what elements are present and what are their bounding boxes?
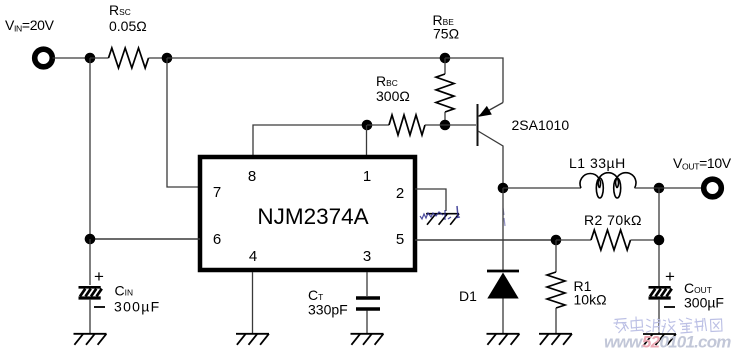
pin 3 — [363, 248, 371, 265]
pin 7 — [213, 184, 221, 201]
wire collector node to D1 — [502, 188, 504, 270]
svg-text:NJM2374A: NJM2374A — [257, 204, 368, 229]
capacitor COUT — [649, 267, 676, 307]
wire top rail to RBE node — [167, 57, 445, 59]
wire R2 to output node — [631, 239, 660, 241]
wire node to RSC — [90, 57, 109, 59]
label RBC 300ohm — [376, 73, 410, 104]
label L1 33uH — [569, 155, 626, 171]
svg-text:CIN: CIN — [115, 283, 134, 299]
wire RBC to base node — [425, 124, 445, 126]
wire pin4 to ground — [252, 272, 254, 334]
node output — [654, 183, 665, 194]
wire CIN to ground — [89, 299, 91, 334]
resistor RSC — [109, 48, 149, 68]
ground pin2 — [426, 214, 459, 225]
svg-text:VIN=20V: VIN=20V — [5, 17, 55, 34]
resistor RBE — [436, 74, 454, 112]
transistor Q1 collector — [478, 131, 503, 188]
wire pin6 node to IC — [90, 238, 200, 240]
svg-text:RBC: RBC — [376, 73, 398, 89]
label VOUT=10V — [673, 155, 732, 172]
node after RSC — [162, 53, 173, 64]
svg-text:+: + — [665, 267, 675, 286]
wire node to RBC — [367, 124, 389, 126]
label 2SA1010 — [512, 117, 570, 133]
resistor R2 — [591, 230, 630, 250]
svg-text:www.: www. — [604, 333, 645, 350]
IC U1 box — [200, 157, 415, 270]
label CIN 300uF — [114, 283, 160, 315]
svg-text:2: 2 — [396, 185, 404, 202]
label R1 10kohm — [574, 278, 607, 308]
label RBE 75ohm — [433, 12, 460, 42]
pin 8 — [248, 168, 256, 185]
node input junction — [85, 53, 96, 64]
wire VIN vertical to pin6 node — [89, 58, 91, 239]
pin 1 — [363, 168, 371, 185]
wire input to node — [53, 57, 91, 59]
wire top rail to emitter corner — [445, 58, 503, 103]
wire pin3 to CT — [366, 272, 368, 296]
ground D1 — [487, 334, 520, 345]
resistor RBC — [389, 115, 425, 135]
label R2 70kohm — [584, 212, 642, 228]
svg-text:0.05Ω: 0.05Ω — [109, 18, 147, 34]
label D1 — [459, 288, 477, 304]
wire R1 top lead — [555, 240, 557, 272]
svg-text:L1 33µH: L1 33µH — [569, 155, 626, 171]
transistor Q1 body bar — [477, 104, 479, 146]
node R2 output — [654, 235, 665, 246]
svg-text:RSC: RSC — [109, 2, 131, 18]
watermark url — [604, 333, 731, 350]
capacitor CIN — [79, 267, 106, 307]
wire to output terminal — [635, 187, 705, 189]
wire COUT to ground — [658, 299, 660, 334]
label RSC 0.05ohm — [109, 2, 147, 34]
node base — [440, 120, 451, 131]
svg-text:10kΩ: 10kΩ — [574, 292, 607, 308]
svg-text:6: 6 — [213, 231, 221, 248]
svg-text:3: 3 — [363, 248, 371, 265]
label VIN=20V — [5, 17, 55, 34]
svg-text:R2 70kΩ: R2 70kΩ — [584, 212, 642, 228]
svg-text:4: 4 — [249, 248, 257, 265]
svg-text:330pF: 330pF — [308, 302, 348, 318]
pin 6 — [213, 231, 221, 248]
wire D1 to ground — [502, 299, 504, 334]
pin 2 — [396, 185, 404, 202]
ground pin4 — [236, 334, 269, 345]
label NJM2374A — [257, 204, 368, 229]
label CT 330pF — [308, 287, 348, 318]
wire CT to ground — [366, 311, 368, 334]
svg-text:300µF: 300µF — [114, 299, 160, 315]
capacitor CT — [356, 298, 380, 309]
ground COUT — [643, 334, 676, 345]
svg-text:+: + — [94, 267, 104, 286]
svg-text:5: 5 — [396, 231, 404, 248]
label COUT 300uF — [684, 280, 724, 311]
resistor R1 — [547, 272, 565, 308]
wire RSC to node — [149, 57, 168, 59]
inductor L1 — [580, 173, 636, 198]
diode D1 — [487, 271, 519, 299]
svg-text:8: 8 — [248, 168, 256, 185]
wire pin2 to ground — [415, 189, 446, 211]
node RBE top — [440, 53, 451, 64]
output terminal — [704, 179, 722, 197]
wire pin1 riser — [366, 125, 368, 155]
node collector — [498, 183, 509, 194]
svg-text:D1: D1 — [459, 288, 477, 304]
ground R1 — [539, 334, 572, 345]
svg-text:52: 52 — [642, 333, 661, 350]
svg-text:2SA1010: 2SA1010 — [512, 117, 570, 133]
svg-text:75Ω: 75Ω — [433, 26, 459, 42]
wire collector node to L1 — [503, 187, 581, 189]
input terminal — [35, 49, 53, 67]
wire node to R2 — [556, 239, 591, 241]
watermark chinese — [614, 317, 723, 334]
svg-text:300Ω: 300Ω — [376, 88, 410, 104]
node pin1 top — [362, 120, 373, 131]
watermark blue scribble — [420, 206, 505, 226]
svg-text:0101.com: 0101.com — [660, 333, 732, 350]
svg-text:300µF: 300µF — [684, 295, 724, 311]
svg-text:VOUT=10V: VOUT=10V — [673, 155, 732, 172]
wire pin6 node down to CIN — [89, 239, 91, 285]
wire feedback rail pin5 — [415, 239, 556, 241]
svg-text:7: 7 — [213, 184, 221, 201]
node pin6 — [85, 234, 96, 245]
wire base node to transistor — [445, 124, 476, 126]
svg-text:1: 1 — [363, 168, 371, 185]
transistor Q1 emitter — [479, 103, 503, 117]
node feedback divider — [551, 235, 562, 246]
wire output node down — [658, 188, 660, 286]
wire to pin7 — [167, 58, 200, 187]
ground CIN — [74, 334, 107, 345]
ground CT — [351, 334, 384, 345]
wire RBE top lead — [444, 58, 446, 74]
pin 5 — [396, 231, 404, 248]
wire R1 to ground — [555, 308, 557, 334]
wire RBE bottom lead — [444, 112, 446, 125]
wire pin8 riser — [253, 125, 367, 155]
pin 4 — [249, 248, 257, 265]
